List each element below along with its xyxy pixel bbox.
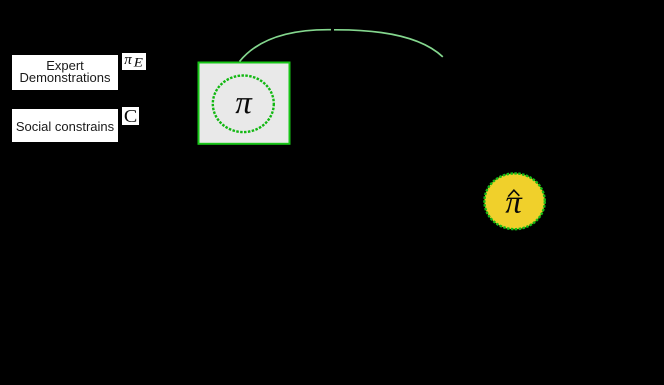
svg-text:π: π	[235, 85, 253, 121]
svg-text:E: E	[133, 56, 144, 70]
svg-text:C: C	[124, 107, 137, 126]
svg-text:π: π	[124, 52, 132, 68]
